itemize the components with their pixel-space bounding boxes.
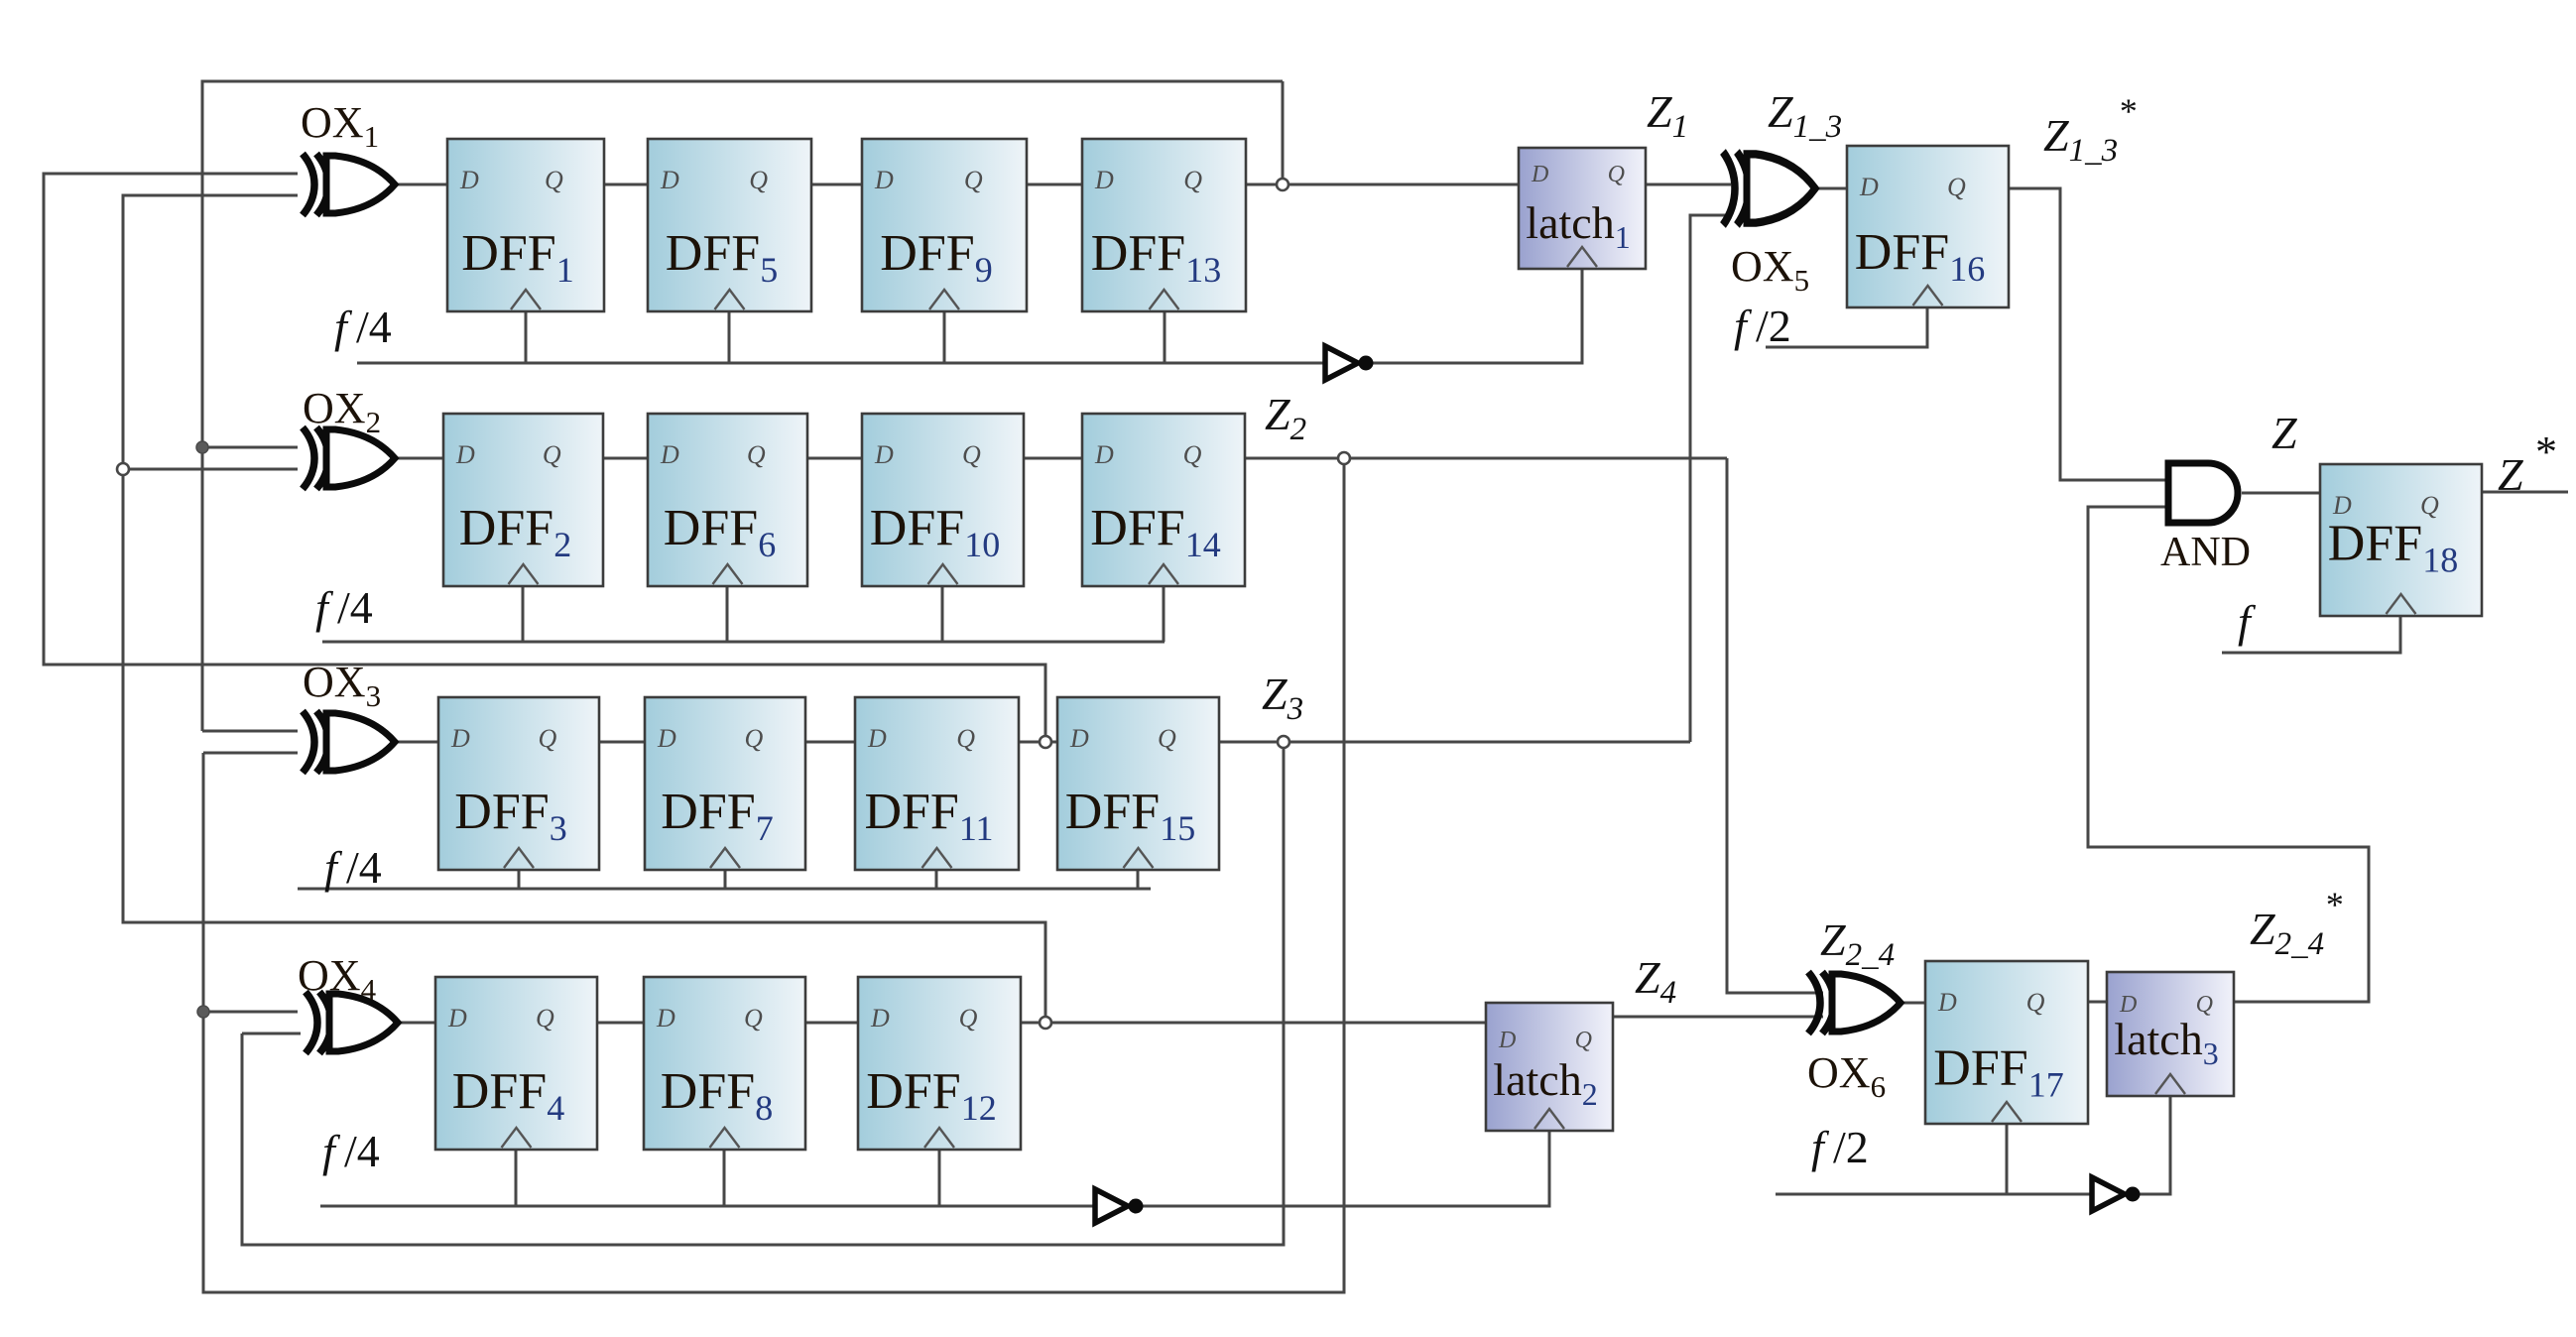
- xor-gate OX3: [303, 711, 395, 773]
- inverter latch1 clock: [1325, 346, 1374, 380]
- svg-text:Q: Q: [959, 1004, 978, 1033]
- node junction Z2-OX4: [197, 1006, 209, 1018]
- wire DFF16 f/2 clock: [1766, 307, 1927, 347]
- flip-flop DFF8: [644, 977, 805, 1150]
- wire Z2 from Q14: [1245, 457, 1727, 460]
- wire row1 clock stub x952: [943, 311, 946, 363]
- wire Z1 tap vertical x1293: [1282, 81, 1285, 184]
- wire row4 clock stub x947: [938, 1150, 941, 1206]
- xor-gate OX4: [306, 992, 398, 1053]
- svg-text:Q: Q: [1608, 162, 1625, 187]
- wire Z2 feedback to OX3/OX4: [203, 458, 1344, 1292]
- wire OX4 input A from Z2: [203, 1011, 298, 1014]
- svg-text:Q: Q: [744, 724, 763, 753]
- flip-flop DFF3: [438, 697, 599, 870]
- svg-text:Q: Q: [1947, 173, 1966, 201]
- wire OX2 input B from Z4 rail: [123, 468, 298, 471]
- svg-text:Q: Q: [747, 440, 766, 469]
- latch3: [2107, 972, 2234, 1096]
- wire Z* output: [2482, 491, 2568, 494]
- svg-text:D: D: [874, 440, 894, 469]
- wire Q10 to D14: [1024, 457, 1082, 460]
- wire Q11 to D15: [1019, 741, 1057, 744]
- flip-flop DFF4: [435, 977, 597, 1150]
- inverter latch3 clock: [2092, 1177, 2141, 1211]
- svg-text:Q: Q: [536, 1004, 554, 1033]
- wire row1 clock stub x1174: [1164, 311, 1166, 363]
- wire row2 clock stub x733: [726, 586, 729, 642]
- node junction Z1 tap: [1277, 179, 1288, 190]
- svg-text:/2: /2: [1756, 301, 1791, 351]
- flip-flop DFF13: [1082, 139, 1246, 311]
- wire row3 clock stub x944: [935, 870, 938, 889]
- flip-flop DFF16: [1847, 146, 2009, 307]
- svg-text:/4: /4: [344, 1126, 380, 1176]
- node junction Q11 tap: [1040, 736, 1051, 748]
- wire OX2 input A from Z1 rail: [202, 446, 298, 449]
- wire DFF18 f clock: [2222, 616, 2400, 653]
- wire Q1 to D5: [604, 183, 648, 186]
- svg-text:Q: Q: [1183, 440, 1202, 469]
- wire DFF17 clock stub: [2006, 1124, 2009, 1194]
- svg-text:D: D: [874, 166, 894, 194]
- wire Q9 to D13: [1027, 183, 1082, 186]
- wire Z2 to OX6 input A: [1727, 458, 1823, 993]
- svg-text:D: D: [1531, 162, 1548, 187]
- flip-flop DFF1: [447, 139, 604, 311]
- node junction Z1-OX2: [196, 441, 208, 453]
- svg-text:Z: Z: [2498, 449, 2523, 500]
- svg-text:D: D: [1094, 166, 1114, 194]
- svg-text:Q: Q: [749, 166, 768, 194]
- xor-gate OX5: [1723, 152, 1815, 225]
- wire OX6 out to DFF17 D: [1901, 1002, 1925, 1005]
- svg-text:D: D: [459, 166, 479, 194]
- flip-flop DFF5: [648, 139, 811, 311]
- svg-text:/2: /2: [1833, 1122, 1869, 1172]
- wire row4 f/4 bus: [320, 1205, 1095, 1208]
- wire OX4 out to DFF4 D: [400, 1022, 435, 1025]
- wire inverter2 out to latch2 clock: [1139, 1131, 1549, 1206]
- wire OX2 out to DFF2 D: [397, 457, 443, 460]
- wire Z4 latch2 Q to OX6 input B: [1613, 1016, 1823, 1019]
- svg-text:Q: Q: [1575, 1028, 1592, 1053]
- wire row2 clock stub x950: [941, 586, 944, 642]
- wire Z3 to OX5 input B: [1690, 215, 1731, 742]
- svg-text:D: D: [1859, 173, 1879, 201]
- flip-flop DFF9: [862, 139, 1027, 311]
- svg-text:Q: Q: [962, 440, 981, 469]
- wire Q7 to D11: [805, 741, 855, 744]
- wire Z4 from Q12 to latch2 D: [1021, 1022, 1486, 1025]
- svg-text:D: D: [1498, 1028, 1516, 1053]
- wire Q6 to D10: [807, 457, 862, 460]
- svg-text:D: D: [1094, 440, 1114, 469]
- wire OX1 out to DFF1 D: [393, 183, 447, 186]
- svg-text:Q: Q: [545, 166, 563, 194]
- wire row3 f/4 bus: [298, 888, 1151, 891]
- wire row2 f/4 bus: [322, 641, 1165, 644]
- wire row3 clock stub x523: [518, 870, 521, 889]
- wire row1 clock stub x530: [525, 311, 528, 363]
- xor-gate OX6: [1808, 972, 1901, 1033]
- wire Q5 to D9: [811, 183, 862, 186]
- wire OX3 out to DFF3 D: [393, 741, 438, 744]
- latch1: [1519, 148, 1646, 269]
- flip-flop DFF6: [648, 414, 807, 586]
- xor-gate OX1: [303, 154, 395, 215]
- svg-text:Q: Q: [956, 724, 975, 753]
- svg-text:Q: Q: [543, 440, 561, 469]
- flip-flop DFF11: [855, 697, 1019, 870]
- flip-flop DFF15: [1057, 697, 1219, 870]
- wire row2 clock stub x527: [522, 586, 525, 642]
- wire row3 clock stub x731: [724, 870, 727, 889]
- flip-flop DFF14: [1082, 414, 1245, 586]
- wire OX1 input B from Z4 tap: [123, 195, 1045, 1023]
- flip-flop DFF17: [1925, 961, 2088, 1124]
- svg-text:D: D: [660, 166, 679, 194]
- svg-text:D: D: [450, 724, 470, 753]
- svg-text:/4: /4: [337, 582, 373, 633]
- node junction Z4 tap: [1040, 1017, 1051, 1029]
- svg-text:Q: Q: [1183, 166, 1202, 194]
- wire Q13 to latch1 D: [1246, 183, 1519, 186]
- wire Z1 latch1 Q to OX5 input A: [1646, 183, 1731, 186]
- and-gate AND: [2168, 463, 2238, 523]
- svg-text:AND: AND: [2160, 530, 2251, 575]
- svg-text:Q: Q: [2420, 491, 2439, 520]
- svg-text:Q: Q: [1158, 724, 1176, 753]
- wire f/2 bus bottom: [1776, 1193, 2092, 1196]
- svg-text:Q: Q: [964, 166, 983, 194]
- wire Q3 to D7: [599, 741, 645, 744]
- wire Z3 from Q15: [1219, 741, 1690, 744]
- node junction Z4-OX2: [117, 463, 129, 475]
- wire feedback Z1 top rail x204: [202, 81, 1283, 731]
- svg-text:D: D: [870, 1004, 890, 1033]
- wire Z AND out to DFF18 D: [2242, 492, 2320, 495]
- node junction Z2 tap: [1338, 452, 1350, 464]
- flip-flop DFF12: [858, 977, 1021, 1150]
- wire inverter1 out to latch1 clock: [1369, 269, 1582, 363]
- wire Q2 to D6: [603, 457, 648, 460]
- wire OX1 input A from Q11 tap: [44, 174, 1045, 742]
- wire OX5 out to DFF16 D: [1813, 187, 1847, 190]
- svg-text:D: D: [867, 724, 887, 753]
- wire row4 clock stub x520: [515, 1150, 518, 1206]
- wire row4 clock stub x730: [723, 1150, 726, 1206]
- flip-flop DFF2: [443, 414, 603, 586]
- wire inverter3 out to latch3 clock: [2136, 1096, 2170, 1194]
- latch2: [1486, 1003, 1613, 1131]
- svg-text:Q: Q: [538, 724, 556, 753]
- svg-text:/4: /4: [356, 302, 392, 352]
- svg-text:D: D: [660, 440, 679, 469]
- wire DFF17 Q to latch3 D: [2088, 1001, 2107, 1004]
- svg-text:D: D: [656, 1004, 675, 1033]
- wire OX3 input B from Z2: [203, 752, 298, 755]
- wire OX4 input B from Z3: [242, 1033, 301, 1035]
- svg-text:Q: Q: [2026, 988, 2045, 1017]
- svg-text:Z: Z: [2271, 408, 2297, 458]
- svg-text:D: D: [455, 440, 475, 469]
- svg-text:*: *: [2535, 427, 2557, 476]
- inverter latch2 clock: [1095, 1189, 1144, 1223]
- svg-text:D: D: [447, 1004, 467, 1033]
- flip-flop DFF7: [645, 697, 805, 870]
- svg-text:D: D: [657, 724, 676, 753]
- svg-text:/4: /4: [346, 842, 382, 893]
- xor-gate OX2: [303, 427, 395, 489]
- wire row2 clock stub x1173: [1163, 586, 1165, 642]
- wire row1 clock stub x735: [728, 311, 731, 363]
- wire row3 clock stub x1147: [1137, 870, 1140, 889]
- wire Z2_4* feedback to AND input B: [2088, 507, 2369, 1002]
- wire Z1_3* to AND input A: [2009, 188, 2168, 480]
- wire row1 f/4 bus: [357, 362, 1325, 365]
- wire OX3 input A from Z1 rail: [202, 730, 298, 733]
- svg-text:Q: Q: [744, 1004, 763, 1033]
- wire Z3 feedback to OX4: [242, 742, 1284, 1245]
- flip-flop DFF18: [2320, 464, 2482, 616]
- wire Q8 to D12: [805, 1022, 858, 1025]
- svg-text:D: D: [1069, 724, 1089, 753]
- svg-text:D: D: [1937, 988, 1957, 1017]
- node junction Z3 tap: [1278, 736, 1289, 748]
- wire Q4 to D8: [597, 1022, 644, 1025]
- flip-flop DFF10: [862, 414, 1024, 586]
